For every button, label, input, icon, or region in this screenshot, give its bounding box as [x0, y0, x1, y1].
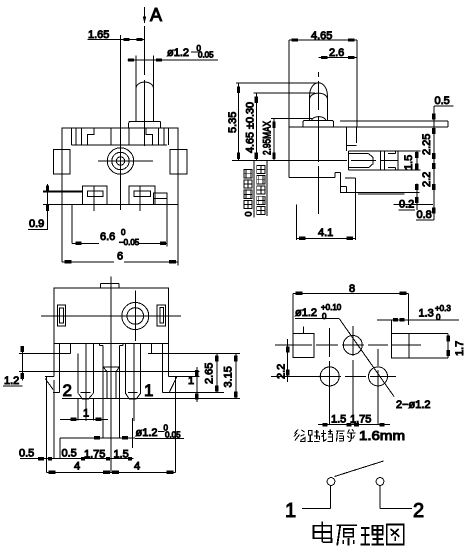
svg-text:0.05: 0.05: [198, 51, 214, 60]
dimension 1.3 +0.3/0: [377, 304, 459, 334]
body right notch: [347, 127, 357, 151]
section arrow A: [143, 5, 162, 25]
terminal pin 2: [78, 344, 93, 421]
operating position reference line (4.65): [254, 92, 315, 94]
svg-text:5.35: 5.35: [227, 112, 239, 133]
svg-text:ø1.2: ø1.2: [136, 427, 158, 439]
svg-text:0.8: 0.8: [417, 209, 432, 221]
horizontal centerline through bottom holes: [310, 375, 396, 377]
svg-text:4.1: 4.1: [318, 227, 333, 239]
svg-text:−0.05: −0.05: [119, 238, 140, 247]
svg-text:1.5: 1.5: [114, 449, 129, 461]
right mounting ear: [170, 150, 187, 175]
svg-text:0.2: 0.2: [399, 199, 414, 211]
dimension 6: [62, 251, 178, 264]
svg-text:0: 0: [436, 313, 441, 322]
extension lines below body (front): [62, 205, 178, 266]
left slot (bottom view): [57, 305, 65, 326]
dimension 2.2 (right): [421, 163, 436, 190]
label 0 kai shi wei zhi (start position, vertical): [244, 160, 254, 217]
dimension reference line top (pin datum): [19, 352, 240, 354]
bent pin bottom right: [394, 203, 433, 205]
dimension 1.5 / 1.75 (hole pitch): [318, 414, 390, 427]
svg-text:2.95MAX: 2.95MAX: [262, 121, 274, 155]
vertical centerline bottom-left hole: [329, 328, 331, 425]
solder pad left: [293, 334, 314, 358]
dimension reference line bottom: [62, 397, 240, 399]
label quan yi dong wei zhi (full travel position, vertical): [257, 160, 267, 216]
svg-text:4: 4: [134, 461, 140, 473]
terminal pin 1: [126, 344, 141, 448]
plunger (front): [136, 56, 154, 122]
hole bottom left: [320, 367, 339, 386]
dimension row 0.5 / 0.5 / 1.75 / 1.5: [19, 438, 134, 461]
left leg: [45, 344, 59, 473]
horizontal centerline (bottom view): [41, 315, 181, 317]
plunger collar (front): [129, 121, 161, 128]
hole top center: [343, 336, 362, 355]
svg-text:2: 2: [413, 500, 424, 522]
switch arm: [335, 461, 384, 477]
svg-text:4.65 ±0.30: 4.65 ±0.30: [245, 102, 257, 153]
top band verticals: [72, 128, 169, 145]
dimension 5.35: [227, 83, 240, 160]
dimension reference line middle: [19, 370, 200, 372]
svg-text:6.6: 6.6: [100, 231, 115, 243]
plunger centerline: [144, 26, 146, 146]
dimension dia 1.2 0/-0.05 (center pin): [60, 424, 184, 440]
dimension 8: [293, 283, 409, 358]
svg-text:2−ø1.2: 2−ø1.2: [396, 399, 431, 411]
dimension 4.65 (top): [289, 30, 357, 42]
hole bottom right: [369, 367, 388, 386]
left step: [71, 344, 78, 372]
dimension 1.65: [88, 29, 145, 145]
svg-text:0: 0: [244, 211, 254, 216]
vertical centerline (bottom view): [110, 277, 112, 473]
svg-text:1.3: 1.3: [419, 308, 434, 320]
svg-text:1.7: 1.7: [454, 341, 465, 356]
svg-text:1.75: 1.75: [84, 449, 105, 461]
bottom plate: [340, 192, 419, 194]
svg-text:0: 0: [121, 228, 126, 237]
body outline (front): [62, 128, 178, 205]
top band bottom line: [72, 144, 168, 146]
svg-text:ø1.2: ø1.2: [295, 307, 317, 319]
note: PCB thickness is 1.6mm (Chinese): [294, 430, 356, 442]
dimension 6.6 0/-0.05: [72, 228, 167, 247]
dimension 3.15: [223, 353, 238, 398]
plunger (side): [310, 83, 328, 121]
svg-text:1: 1: [144, 381, 153, 400]
dimension 4 / 4: [47, 461, 176, 475]
svg-text:1: 1: [285, 500, 296, 522]
svg-text:+0.10: +0.10: [321, 303, 342, 312]
dimension 1 (pin 2 width): [60, 408, 108, 422]
bottom slot right: [129, 186, 155, 211]
dimension 0.9: [28, 184, 49, 230]
dimension 2.25: [421, 134, 436, 159]
svg-text:0.5: 0.5: [62, 448, 77, 460]
right slot (bottom view): [157, 305, 165, 326]
vertical centerline bottom-right hole: [377, 349, 379, 425]
svg-text:0.9: 0.9: [29, 218, 44, 230]
dimension 0.2: [398, 184, 418, 211]
svg-text:3.15: 3.15: [223, 366, 235, 387]
vertical centerline top hole: [352, 326, 354, 425]
plunger hole circles (bottom view): [122, 291, 149, 341]
wire riser 2: [379, 485, 381, 508]
svg-text:1: 1: [188, 375, 194, 387]
svg-text:4: 4: [74, 461, 80, 473]
center boss circles: [98, 144, 153, 210]
svg-text:2.2: 2.2: [421, 172, 433, 187]
left mounting ear: [53, 150, 70, 175]
dimension 0.5 (lever thickness): [432, 95, 454, 220]
svg-text:ø1.2: ø1.2: [167, 47, 189, 59]
right step: [148, 344, 151, 354]
svg-text:2.2: 2.2: [276, 364, 288, 379]
mounting foot: [340, 186, 346, 192]
svg-text:6: 6: [117, 251, 123, 263]
svg-text:1: 1: [83, 408, 89, 420]
horizontal centerline through pads and top hole: [283, 344, 421, 346]
dimension 1.2 (left): [3, 346, 24, 387]
lower body edge: [345, 178, 356, 240]
body outline (bottom view): [54, 288, 168, 344]
dimension 2.2 (pcb): [271, 327, 310, 383]
svg-text:2: 2: [63, 381, 72, 400]
svg-text:A: A: [150, 5, 162, 25]
PCB reference line: [232, 159, 398, 161]
top band left step: [88, 128, 94, 145]
svg-text:0: 0: [322, 312, 327, 321]
right leg: [163, 344, 224, 473]
svg-text:1.5: 1.5: [403, 155, 415, 170]
svg-text:1.6mm: 1.6mm: [359, 428, 405, 443]
svg-text:1.2: 1.2: [4, 375, 19, 387]
extension line right of plunger: [356, 40, 358, 127]
svg-text:0.5: 0.5: [19, 448, 34, 460]
top locating tab: [101, 284, 119, 289]
plunger collar (side): [303, 120, 334, 127]
lever arm (side): [340, 121, 448, 127]
full travel reference line (2.95): [271, 117, 312, 119]
body (side): [289, 40, 448, 177]
contact 1: [327, 478, 335, 486]
wire riser 1: [330, 485, 332, 508]
dimension 4.65 +-0.30: [245, 93, 259, 160]
dimension 1.5 (terminal height): [398, 151, 421, 170]
svg-text:1.5: 1.5: [331, 414, 346, 426]
label 2-dia1.2: [396, 399, 431, 411]
solder pad right: [392, 334, 410, 358]
caption: electrical schematic (Chinese): [314, 521, 404, 545]
dimension 2.95MAX: [262, 118, 276, 160]
dimension 4.1: [297, 205, 356, 241]
small cells right of right slot: [154, 193, 168, 205]
label dia 1.2 +0.10/0 with leader: [295, 303, 394, 397]
free position reference line (5.35): [236, 82, 317, 84]
dimension 2.65: [204, 353, 219, 392]
svg-text:2.25: 2.25: [421, 134, 433, 155]
dimension 0.8: [416, 207, 435, 221]
contact 2: [376, 478, 384, 486]
bottom slot left: [83, 186, 108, 211]
dimension dia 1.2 0/-0.05 (plunger): [128, 44, 219, 62]
svg-text:0.5: 0.5: [435, 95, 450, 107]
body bottom step: [335, 172, 340, 193]
wire terminal 1: [302, 507, 331, 509]
svg-text:+0.3: +0.3: [435, 304, 451, 313]
wire terminal 2: [380, 507, 412, 509]
dimension 1.7 (pad height): [409, 334, 465, 358]
svg-text:1.75: 1.75: [350, 414, 371, 426]
top band right step: [146, 128, 152, 145]
svg-text:2.65: 2.65: [204, 363, 216, 384]
plunger centerline (side): [317, 72, 319, 214]
dimension 2.6: [318, 47, 357, 59]
0.9 feature line: [43, 192, 83, 205]
center pivot pin: [99, 344, 123, 438]
terminal contact (side, bullet): [348, 151, 398, 170]
svg-text:0.05: 0.05: [165, 430, 181, 439]
dimension 1 (right, leg tip): [188, 367, 199, 402]
